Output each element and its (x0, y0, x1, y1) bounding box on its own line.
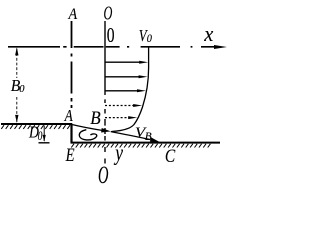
svg-text:y: y (114, 141, 124, 166)
svg-text:x: x (203, 21, 214, 46)
dividing streamline from step edge (73, 125, 103, 131)
svg-text:E: E (65, 144, 75, 165)
eddy in step corner (79, 130, 96, 140)
svg-text:0: 0 (38, 130, 43, 144)
svg-text:O: O (104, 2, 113, 25)
lower channel bed (71, 142, 221, 144)
dimension line D0 (43, 126, 45, 142)
velocity arrow v2 (solid) (105, 76, 141, 78)
svg-text:A: A (68, 7, 78, 24)
dimension line B0 (16, 49, 18, 123)
axis O-O dashed part (104, 99, 106, 163)
x-axis centerline (dash-dot) (8, 46, 217, 48)
svg-text:O: O (98, 162, 109, 185)
axis O-O vertical solid part (104, 21, 106, 95)
arrowhead at C (150, 137, 161, 142)
velocity arrow v4 (dashed, recirculation zone) (105, 105, 135, 107)
svg-text:0: 0 (19, 84, 25, 95)
step face (70, 124, 72, 143)
section line A-A (vertical dash-dot) (71, 21, 73, 108)
svg-text:0: 0 (107, 25, 115, 48)
velocity vector arrowhead at B (101, 128, 111, 133)
velocity arrow v5 (dashed, recirculation zone) (105, 117, 130, 119)
svg-text:A: A (64, 107, 74, 126)
velocity arrow v3 (solid) (105, 90, 139, 92)
svg-text:0: 0 (147, 32, 153, 45)
x-axis arrowhead (214, 45, 227, 49)
svg-text:B: B (90, 107, 100, 128)
svg-text:C: C (165, 146, 176, 167)
velocity arrow v1 (solid) (105, 61, 141, 63)
streamline B to C (111, 132, 150, 140)
upper channel bed (1, 123, 72, 125)
velocity profile envelope (112, 46, 149, 131)
svg-text:B: B (145, 131, 152, 143)
